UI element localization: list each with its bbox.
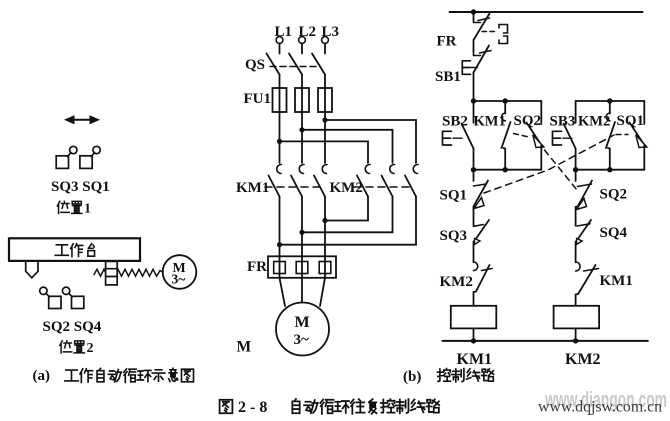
contact KM2 aux (NO) — [606, 101, 615, 170]
svg-text:SQ1: SQ1 — [440, 188, 468, 204]
svg-text:L1: L1 — [275, 24, 293, 40]
limit contact SQ4 (NC) — [576, 220, 591, 262]
svg-text:KM1: KM1 — [457, 351, 493, 368]
caption (a) — [33, 368, 194, 384]
contact SQ2 (NO) with arrow — [527, 101, 544, 170]
svg-text:QS: QS — [245, 57, 265, 73]
svg-text:M: M — [237, 339, 252, 356]
svg-text:FU1: FU1 — [244, 91, 272, 107]
wire phase1 down to KM1 — [279, 112, 281, 163]
contactor KM2 pole2 contact — [382, 164, 395, 196]
svg-text:FR: FR — [247, 259, 267, 275]
thermal contact FR (NC) — [474, 14, 508, 44]
wire phase3 QS to fuse — [324, 75, 326, 89]
node KM1 aux bottom — [503, 167, 508, 172]
svg-text:SQ3: SQ3 — [440, 228, 468, 244]
svg-text:3~: 3~ — [294, 332, 310, 348]
svg-text:SQ2: SQ2 — [600, 187, 628, 203]
contactor KM2 pole1 contact — [357, 164, 370, 196]
label M 3~ (schematic a) — [172, 261, 186, 287]
node phase3 feed — [322, 117, 327, 122]
limit switch SQ2 icon — [40, 287, 61, 308]
wire feed to KM2 pole3 — [325, 120, 416, 163]
left group bottom bus — [474, 169, 542, 171]
right group bottom bus — [576, 169, 645, 171]
svg-text:SB3: SB3 — [550, 114, 576, 130]
motor M 3~ circle — [276, 303, 329, 356]
wire KM2 pole2 out crossover — [302, 197, 393, 233]
svg-text:M: M — [295, 314, 310, 331]
svg-text:L2: L2 — [299, 24, 317, 40]
contact KM2 aux (NC interlock) — [474, 262, 493, 306]
limit contact SQ2 (NC) with arrow — [576, 181, 592, 226]
wire FR to motor right — [320, 278, 325, 306]
node rail junction — [471, 9, 476, 14]
fuse FU1 phase1 — [273, 88, 287, 112]
double-headed motion arrow — [64, 115, 100, 124]
motor circle (schematic a) M 3~ — [163, 255, 197, 289]
wire SB1 to left group — [473, 73, 475, 102]
svg-text:KM2: KM2 — [330, 180, 363, 196]
coil KM2 — [554, 306, 600, 329]
terminal L3 — [322, 37, 329, 44]
svg-text:1: 1 — [84, 202, 91, 217]
svg-text:FR: FR — [437, 34, 457, 50]
svg-text:SQ3 SQ1: SQ3 SQ1 — [51, 179, 110, 195]
node KM2 aux bottom — [607, 167, 612, 172]
node phase1 feed — [277, 139, 282, 144]
wire phase2 to FR — [301, 197, 303, 257]
limit contact SQ1 (NC) with arrow — [474, 181, 489, 226]
node SQ1nc top — [471, 167, 476, 172]
terminal L1 — [276, 37, 283, 44]
mechanical link SQ2 dashed — [514, 134, 578, 191]
wire FR to motor mid — [301, 278, 303, 303]
left group top bus — [474, 100, 542, 102]
wire bus to SQ1nc — [473, 170, 475, 181]
contactor KM2 pole3 contact — [405, 164, 418, 196]
svg-text:SQ1: SQ1 — [617, 113, 645, 129]
right group top bus — [576, 100, 645, 102]
node crossover phase3 — [322, 218, 327, 223]
limit switch SQ3 icon — [56, 146, 77, 168]
dog (cam) under table left — [26, 261, 38, 278]
svg-text:SB2: SB2 — [442, 114, 468, 130]
label 工作台 — [55, 244, 94, 257]
node coil KM2 bottom — [573, 338, 578, 343]
wire L2 drop — [301, 43, 303, 53]
node SB2 top — [471, 98, 476, 103]
bumper block — [106, 261, 118, 285]
wire phase3 to FR — [324, 197, 326, 257]
caption 图 2-8 自动循环往复控制线路 — [220, 399, 440, 416]
node coil KM1 bottom — [471, 338, 476, 343]
wire feed to KM2 pole2 — [302, 130, 393, 163]
contactor KM1 pole3 contact — [314, 164, 327, 196]
svg-text:SQ2 SQ4: SQ2 SQ4 — [43, 319, 102, 335]
worktable rectangle — [9, 238, 140, 261]
fuse FU1 phase2 — [295, 88, 309, 112]
svg-text:KM2: KM2 — [565, 351, 601, 368]
QS coupling dashed — [270, 66, 318, 68]
fuse FU1 phase3 — [318, 88, 332, 112]
wire feed to KM2 pole1 — [280, 141, 369, 163]
svg-text:2: 2 — [87, 341, 94, 356]
wire bus to SQ2nc — [575, 170, 577, 181]
wire coil KM2 to rail — [575, 328, 577, 341]
wire L3 drop — [324, 43, 326, 53]
svg-text:(b): (b) — [403, 369, 421, 385]
limit switch SQ4 icon — [62, 287, 83, 308]
svg-text:KM2: KM2 — [578, 114, 610, 130]
FR heater phase1 — [274, 256, 286, 278]
pushbutton SB2 (NO start) — [443, 101, 474, 170]
wire coil KM1 to rail — [473, 328, 475, 341]
wire FR to motor left — [280, 278, 286, 306]
svg-text:KM2: KM2 — [440, 274, 473, 290]
FR heater phase2 — [296, 256, 308, 278]
svg-text:3~: 3~ — [172, 272, 186, 287]
switch QS pole 1 blade — [267, 54, 280, 75]
contact SQ1 (NO) with arrow — [630, 101, 647, 170]
node SQ2nc top — [573, 167, 578, 172]
label 位置2 — [60, 341, 94, 356]
wire phase2 down to KM1 — [301, 112, 303, 163]
label M 3~ (motor) — [294, 314, 310, 348]
wire rail to FR contact — [473, 12, 475, 20]
wire KM2 pole3 out crossover — [280, 197, 417, 245]
svg-text:SB1: SB1 — [435, 69, 461, 85]
wire L1 drop — [279, 43, 281, 53]
FR heater phase3 — [319, 256, 331, 278]
bottom return rail — [443, 340, 648, 342]
coil KM1 — [451, 306, 497, 329]
node crossover phase2 — [299, 230, 304, 235]
node KM2 aux top — [607, 98, 612, 103]
pushbutton SB3 (NO start) — [553, 101, 576, 170]
mechanical link SQ1 dashed — [484, 135, 628, 194]
wire phase3 down to KM1 — [324, 112, 326, 163]
node phase2 feed — [299, 127, 304, 132]
contactor KM1 pole2 contact — [291, 164, 304, 196]
svg-text:KM1: KM1 — [474, 114, 506, 130]
contact KM1 aux (NC interlock) — [576, 262, 599, 306]
svg-text:L3: L3 — [322, 24, 340, 40]
svg-text:SQ4: SQ4 — [600, 225, 628, 241]
contact KM1 aux (NO) — [501, 101, 510, 170]
label 位置1 — [57, 201, 91, 216]
KM1 coupling dashed — [265, 186, 320, 188]
limit contact SQ3 (NC) — [474, 220, 490, 262]
thermal relay FR box — [268, 256, 336, 278]
switch QS pole 3 blade — [312, 54, 325, 75]
svg-text:2 - 8: 2 - 8 — [238, 399, 267, 416]
KM2 coupling dashed — [354, 186, 410, 188]
contactor KM1 pole1 contact — [269, 164, 282, 196]
limit switch SQ1 icon — [80, 146, 100, 168]
pushbutton SB1 (NC stop) — [462, 46, 491, 75]
svg-text:KM1: KM1 — [236, 180, 269, 196]
wire phase2 QS to fuse — [301, 75, 303, 89]
svg-text:www.dqjsw.com.cn: www.dqjsw.com.cn — [538, 399, 662, 416]
wire KM2 pole1 out crossover — [325, 197, 368, 221]
terminal L2 — [299, 37, 306, 44]
caption (b) 控制线路 — [403, 369, 494, 385]
wire FR to SB1 — [473, 40, 475, 52]
wire phase1 to FR — [279, 197, 281, 257]
node crossover phase1 — [277, 242, 282, 247]
node KM1 aux top — [503, 98, 508, 103]
svg-text:(a): (a) — [33, 368, 51, 384]
top supply rail — [450, 11, 643, 13]
spring — [94, 269, 163, 276]
wire phase1 QS to fuse — [279, 75, 281, 89]
svg-text:SQ2: SQ2 — [514, 113, 542, 129]
switch QS pole 2 blade — [289, 54, 302, 75]
svg-text:KM1: KM1 — [600, 273, 633, 289]
